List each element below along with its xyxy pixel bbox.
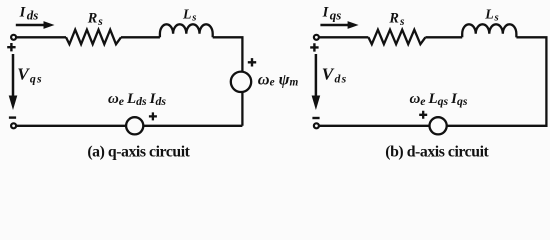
minus at bottom-left terminal (a): [9, 116, 16, 118]
plus at top-left terminal (a): [7, 43, 15, 51]
svg-text:ωe Lqs Iqs: ωe Lqs Iqs: [410, 91, 468, 108]
current arrow I_ds: [16, 21, 55, 29]
node: top-left terminal (a): [11, 35, 16, 40]
plus at source U2 (a): [149, 112, 157, 120]
inductor Ls (b): [462, 24, 516, 37]
minus at bottom-left terminal (b): [312, 117, 319, 119]
node: bottom-left terminal (a): [11, 123, 16, 128]
svg-text:Iqs: Iqs: [322, 5, 342, 23]
wire: bottom, source to node (b): [319, 125, 430, 127]
voltage arrow V_qs (a): [9, 54, 18, 110]
wire: top, node to resistor (a): [17, 36, 66, 38]
wire: bottom, source to node (a): [16, 125, 126, 127]
wire: top, node to resistor (b): [320, 36, 369, 38]
wire: resistor to inductor (b): [425, 36, 462, 38]
resistor Rs (a): [66, 30, 121, 45]
source U1: speed-emf source w_e psi_m (a): [231, 72, 251, 92]
wire: source down to bottom-right corner (a): [143, 93, 242, 126]
svg-text:Vqs: Vqs: [17, 65, 43, 86]
svg-text:Ls: Ls: [182, 6, 196, 23]
node: top-left terminal (b): [314, 35, 319, 40]
svg-text:(b) d-axis circuit: (b) d-axis circuit: [385, 144, 489, 161]
node: bottom-left terminal (b): [314, 123, 319, 128]
wire: inductor to top-right corner, down to source (a): [213, 37, 243, 71]
svg-text:(a) q-axis circuit: (a) q-axis circuit: [87, 144, 190, 161]
current arrow I_qs: [320, 21, 358, 29]
svg-text:Rs: Rs: [388, 11, 405, 28]
plus at source U3 (b): [419, 111, 427, 119]
svg-text:Vds: Vds: [322, 65, 348, 86]
svg-text:ωe ψm: ωe ψm: [258, 69, 299, 88]
svg-text:Ls: Ls: [484, 6, 498, 23]
source U3: speed voltage w_e L_qs I_qs (b): [430, 117, 447, 134]
source U2: speed voltage w_e L_ds I_ds (a): [126, 117, 143, 134]
wire: resistor to inductor (a): [121, 36, 160, 38]
svg-text:ωe Lds Ids: ωe Lds Ids: [108, 91, 166, 108]
wire: inductor to top-right corner, right side down (b): [446, 37, 546, 126]
plus at top-left terminal (b): [310, 43, 318, 51]
resistor Rs (b): [368, 30, 425, 45]
voltage arrow V_ds (b): [312, 54, 321, 110]
plus at source U1 (a): [248, 58, 256, 66]
svg-text:Ids: Ids: [19, 5, 39, 23]
svg-text:Rs: Rs: [87, 11, 104, 28]
inductor Ls (a): [160, 24, 213, 37]
